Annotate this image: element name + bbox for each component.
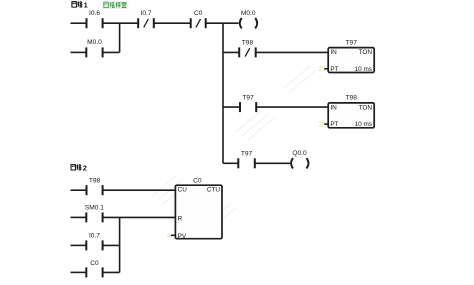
wire branch vertical at node x223	[222, 23, 224, 163]
wire T98 contact to timer T97	[256, 51, 329, 53]
wire node to T98 contact	[223, 51, 239, 53]
coil Q0.0 output	[291, 150, 308, 169]
wire C0 to node	[103, 271, 120, 273]
wire I0.6 to I0.7	[103, 22, 139, 24]
contact M0.0 (NO, seal-in)	[86, 39, 102, 57]
svg-text:C0: C0	[194, 10, 203, 17]
contact I0.7 (NC)	[138, 10, 154, 28]
wire rail stub SM0.1 rung	[71, 216, 87, 218]
svg-text:I0.7: I0.7	[141, 10, 152, 17]
svg-text:T98: T98	[89, 177, 101, 184]
contact I0.7 (NO) reset branch	[86, 233, 102, 251]
faint watermark texture	[152, 66, 316, 228]
timer T98 box (TON)	[328, 95, 374, 129]
wire branch vertical at node x119 (reset group)	[119, 217, 121, 272]
wire M0.0 to node x119	[103, 51, 120, 53]
contact T97 (NO)	[240, 95, 256, 112]
svg-text:TON: TON	[359, 49, 373, 56]
coil M0.0 output	[240, 10, 257, 28]
svg-text:IN: IN	[330, 49, 337, 56]
svg-text:C0: C0	[90, 260, 99, 267]
wire node to T97 contact	[223, 106, 240, 108]
network 2 label	[71, 164, 87, 173]
svg-text:10 ms: 10 ms	[355, 121, 372, 128]
svg-text:CTU: CTU	[207, 187, 221, 194]
svg-text:25: 25	[318, 122, 326, 129]
network 1 label	[72, 1, 88, 10]
value 25 at T98 PT input	[318, 122, 328, 129]
svg-text:I0.6: I0.6	[89, 10, 100, 17]
contact T98 (NC)	[239, 40, 256, 58]
svg-text:T97: T97	[346, 39, 358, 46]
wire rail stub T98 rung	[71, 189, 87, 191]
svg-text:2: 2	[83, 164, 87, 173]
wire I0.7 to C0	[154, 22, 191, 24]
svg-text:T98: T98	[242, 40, 254, 47]
wire I0.7 to node	[103, 244, 120, 246]
svg-text:R: R	[178, 216, 183, 223]
contact C0 (NO) reset branch	[86, 260, 102, 278]
svg-text:Q0.0: Q0.0	[292, 150, 307, 157]
wire SM0.1 to counter R input	[103, 216, 176, 218]
svg-text:IN: IN	[330, 105, 337, 112]
svg-text:PT: PT	[330, 66, 338, 73]
value 25 at T97 PT input	[318, 66, 328, 73]
svg-text:T98: T98	[346, 95, 358, 102]
wire branch vertical at node x119	[119, 23, 121, 52]
svg-text:TON: TON	[359, 105, 373, 112]
contact T98 (NO) counter clock	[87, 177, 103, 195]
svg-text:T97: T97	[241, 150, 253, 157]
svg-text:SM0.1: SM0.1	[85, 205, 104, 212]
value 4 at C0 PV input	[167, 233, 176, 240]
svg-text:T97: T97	[242, 95, 254, 102]
svg-text:1: 1	[84, 1, 88, 10]
network title text (green)	[103, 1, 129, 9]
wire T98 to counter CU input	[103, 189, 176, 191]
wire rail stub C0 rung	[71, 271, 87, 273]
svg-text:4: 4	[167, 233, 171, 240]
wire rail stub I0.7 rung	[71, 244, 87, 246]
wire C0 to coil M0.0	[206, 22, 239, 24]
svg-text:C0: C0	[193, 178, 202, 185]
wire T97 contact to coil Q0.0	[255, 162, 290, 164]
contact SM0.1 (NO)	[85, 205, 104, 223]
wire rail stub M0.0 branch	[71, 51, 87, 53]
wire node to T97 contact (rung 3)	[223, 162, 238, 164]
svg-text:PV: PV	[178, 233, 187, 240]
svg-text:M0.0: M0.0	[87, 39, 102, 46]
svg-text:PT: PT	[330, 121, 338, 128]
contact C0 (NC)	[191, 10, 206, 28]
wire T97 contact to timer T98	[256, 106, 328, 108]
counter C0 box (CTU)	[175, 178, 222, 240]
wire rail stub rung 1	[71, 22, 87, 24]
svg-text:M0.0: M0.0	[241, 10, 256, 17]
timer T97 box (TON)	[328, 39, 374, 73]
contact T97 (NO) rung 3	[238, 150, 255, 168]
svg-text:CU: CU	[178, 187, 188, 194]
svg-text:I0.7: I0.7	[89, 233, 100, 240]
svg-text:25: 25	[318, 66, 326, 73]
contact I0.6 (NO)	[87, 10, 103, 28]
svg-text:10 ms: 10 ms	[355, 66, 372, 73]
